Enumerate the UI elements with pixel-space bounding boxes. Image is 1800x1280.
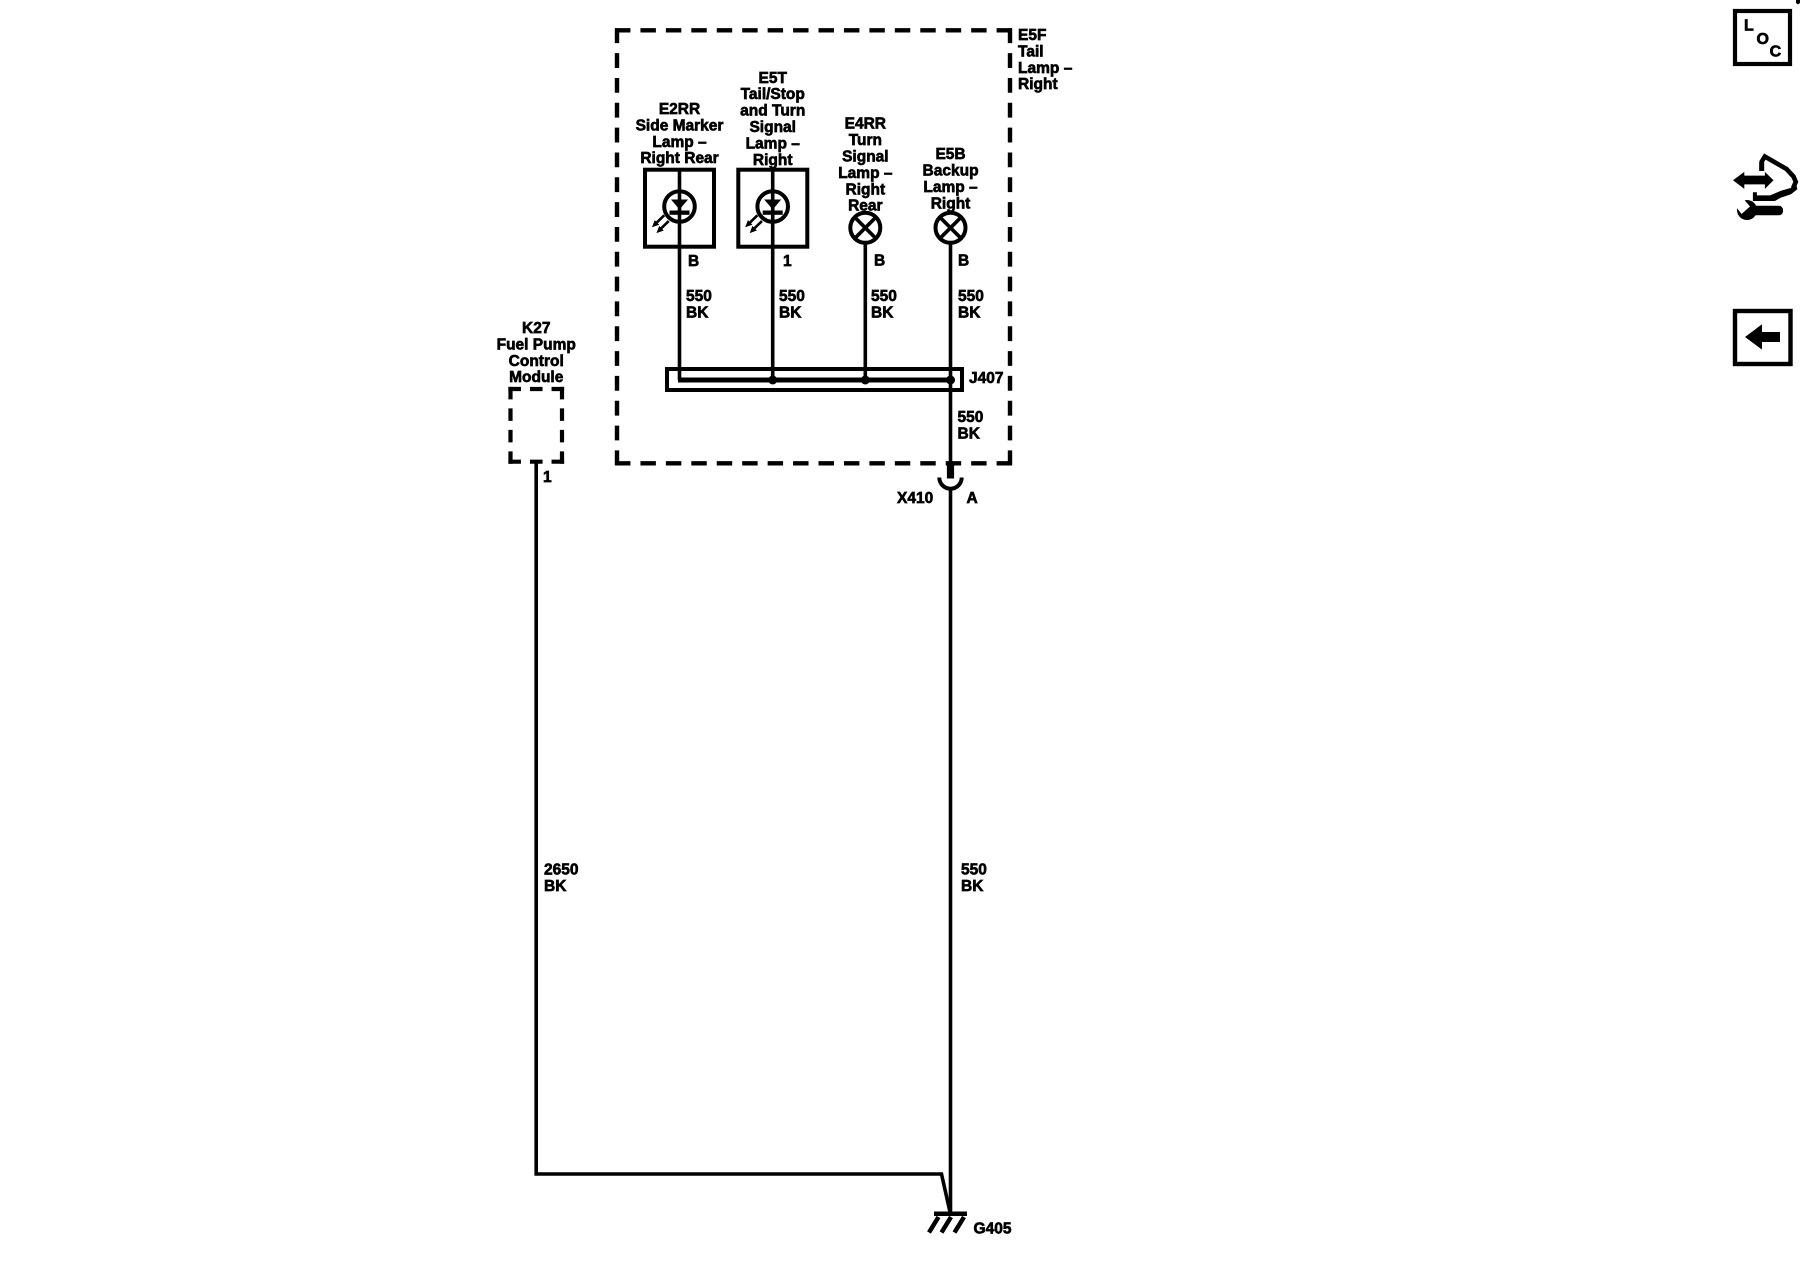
- svg-text:Fuel Pump: Fuel Pump: [497, 336, 576, 353]
- svg-text:Tail: Tail: [1018, 43, 1044, 60]
- svg-text:Lamp –: Lamp –: [746, 135, 801, 152]
- svg-text:E4RR: E4RR: [845, 116, 886, 133]
- svg-text:J407: J407: [969, 370, 1003, 387]
- svg-text:B: B: [958, 253, 969, 270]
- svg-text:E2RR: E2RR: [659, 101, 700, 118]
- svg-text:Lamp –: Lamp –: [652, 134, 707, 151]
- svg-text:Right: Right: [1018, 76, 1058, 93]
- svg-text:550: 550: [961, 862, 987, 879]
- svg-text:Side Marker: Side Marker: [636, 117, 724, 134]
- svg-text:Right: Right: [753, 152, 793, 169]
- svg-text:Right: Right: [846, 181, 886, 198]
- svg-text:550: 550: [958, 288, 984, 305]
- svg-text:Rear: Rear: [848, 198, 882, 215]
- svg-text:BK: BK: [779, 304, 802, 321]
- svg-text:C: C: [1770, 43, 1782, 60]
- svg-text:Signal: Signal: [749, 119, 796, 136]
- svg-text:2650: 2650: [544, 862, 578, 879]
- svg-text:G405: G405: [974, 1221, 1012, 1238]
- svg-text:550: 550: [871, 288, 897, 305]
- svg-text:550: 550: [958, 409, 984, 426]
- svg-text:Right: Right: [931, 195, 971, 212]
- svg-text:BK: BK: [958, 425, 981, 442]
- svg-text:BK: BK: [961, 878, 984, 895]
- svg-text:Lamp –: Lamp –: [923, 179, 978, 196]
- svg-text:Backup: Backup: [923, 163, 979, 180]
- svg-text:Tail/Stop: Tail/Stop: [741, 86, 805, 103]
- svg-text:X410: X410: [897, 490, 933, 507]
- svg-text:E5B: E5B: [935, 146, 965, 163]
- svg-text:Control: Control: [509, 353, 564, 370]
- svg-text:and Turn: and Turn: [740, 103, 805, 120]
- svg-text:A: A: [967, 490, 978, 507]
- svg-text:O: O: [1757, 31, 1769, 48]
- svg-text:Lamp –: Lamp –: [1018, 60, 1073, 77]
- svg-text:550: 550: [779, 288, 805, 305]
- svg-text:BK: BK: [958, 304, 981, 321]
- svg-text:Right Rear: Right Rear: [640, 150, 718, 167]
- svg-text:BK: BK: [686, 304, 709, 321]
- svg-text:Lamp –: Lamp –: [838, 165, 893, 182]
- svg-text:Signal: Signal: [842, 149, 889, 166]
- svg-text:BK: BK: [544, 878, 567, 895]
- svg-text:E5T: E5T: [759, 70, 788, 87]
- svg-text:K27: K27: [522, 320, 550, 337]
- svg-text:Module: Module: [509, 369, 564, 386]
- svg-text:BK: BK: [871, 304, 894, 321]
- svg-text:1: 1: [783, 253, 792, 270]
- svg-text:550: 550: [686, 288, 712, 305]
- svg-text:B: B: [874, 253, 885, 270]
- svg-text:E5F: E5F: [1018, 27, 1046, 44]
- svg-text:1: 1: [543, 469, 552, 486]
- svg-text:L: L: [1744, 18, 1754, 35]
- svg-text:Turn: Turn: [849, 132, 882, 149]
- svg-text:B: B: [688, 253, 699, 270]
